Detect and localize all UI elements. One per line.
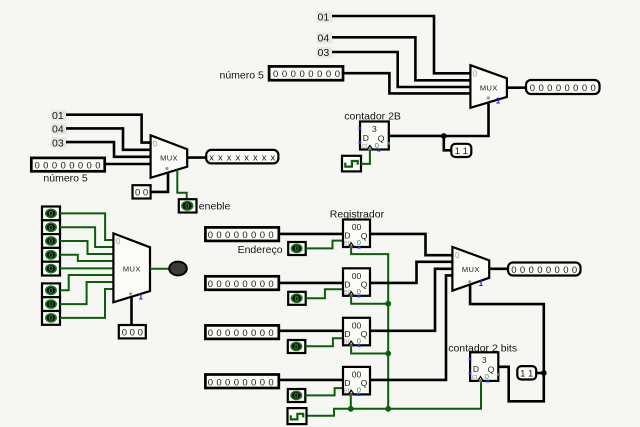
op: multiplexer U1 (top-right MUX) [470, 65, 507, 108]
wire IN4 to R4 D [279, 379, 343, 382]
junction clock/reg3 [385, 351, 391, 357]
svg-text:MUX: MUX [160, 153, 178, 162]
junction select/probe P4 [541, 370, 547, 376]
junction clock main [385, 406, 391, 412]
svg-text:0: 0 [485, 372, 489, 381]
wire junction to P4 [536, 372, 544, 375]
svg-text:04: 04 [318, 33, 330, 45]
wire U3 output (green) [150, 268, 169, 270]
probe P4 "1 1" [517, 366, 536, 379]
svg-text:0: 0 [455, 251, 460, 260]
svg-text:0: 0 [49, 266, 53, 273]
wire 01 to U1 input 0 [332, 16, 470, 73]
svg-text:0 0 0 0 0 0 0 0: 0 0 0 0 0 0 0 0 [208, 377, 274, 388]
clock net reg4 [350, 394, 352, 408]
svg-text:01: 01 [318, 12, 330, 24]
junction clock/reg2 [385, 301, 391, 307]
svg-text:0: 0 [357, 386, 361, 395]
wire U1 select [444, 102, 489, 136]
svg-text:03: 03 [318, 47, 330, 59]
button eneble [179, 199, 231, 213]
svg-text:0: 0 [49, 316, 53, 323]
wire IN2 to R2 D [279, 282, 343, 285]
svg-text:0: 0 [294, 393, 298, 400]
wire R4 Q to U4 in3 [370, 275, 452, 380]
output display O1 (8-bit, top-right) [526, 80, 600, 94]
wire IN1 to R1 D [279, 233, 343, 236]
wire U2 select to probe P2 [151, 172, 168, 192]
button en2 [288, 292, 306, 305]
wire en4 to R4 enable [305, 388, 343, 395]
svg-text:D: D [344, 231, 350, 241]
svg-text:Endereço: Endereço [238, 244, 283, 256]
svg-text:número 5: número 5 [43, 172, 88, 184]
op: multiplexer U4 (bottom-right) [452, 247, 489, 291]
clock net (green) reg1 [351, 247, 388, 409]
svg-text:1: 1 [496, 97, 501, 106]
svg-text:0: 0 [49, 211, 53, 218]
wire junction to probe P1 [444, 136, 452, 150]
input pin IN2 (8-bit) [205, 276, 278, 290]
svg-text:0: 0 [294, 344, 298, 351]
wire U4 select to counter C2 Q [470, 285, 544, 402]
input pin IN3 (8-bit) [205, 325, 278, 339]
wire R3 Q to U4 in2 [370, 269, 452, 331]
svg-text:0: 0 [116, 237, 121, 246]
svg-text:Q: Q [361, 231, 368, 241]
wire U4 output [489, 267, 508, 270]
counter C2 contador 2 bits [448, 343, 517, 383]
svg-text:0: 0 [185, 203, 189, 210]
svg-text:Q: Q [361, 280, 368, 290]
wire R1 Q to U4 in0 [370, 234, 452, 255]
svg-text:0: 0 [295, 246, 299, 253]
svg-text:eneble: eneble [199, 201, 231, 213]
svg-text:0: 0 [357, 337, 361, 346]
svg-text:0: 0 [357, 287, 361, 296]
svg-text:3: 3 [372, 124, 377, 134]
svg-text:0: 0 [295, 296, 299, 303]
svg-text:0: 0 [357, 238, 361, 247]
svg-text:0 0: 0 0 [135, 188, 148, 199]
svg-text:D: D [344, 279, 350, 289]
svg-text:ct: ct [472, 374, 478, 381]
svg-text:0: 0 [49, 225, 53, 232]
clock CLK2 wire to counter C2 [307, 382, 482, 416]
svg-text:1 1: 1 1 [455, 146, 468, 157]
wire button8 to U3 in7 [60, 289, 113, 318]
svg-text:D: D [344, 378, 350, 388]
wire 01 to U2 input 0 [66, 115, 151, 143]
svg-text:0: 0 [153, 140, 158, 149]
wire en1 to R1 enable [306, 241, 343, 249]
svg-text:Q: Q [361, 329, 368, 339]
wire U1 output [507, 86, 526, 89]
register R4 [343, 367, 370, 396]
junction clock/reg4 [348, 406, 354, 412]
wire button5 to U3 in4 [60, 267, 113, 269]
button en4 [288, 389, 306, 402]
wire 03 to U1 input 2 [332, 52, 470, 87]
clock net reg3 [351, 345, 388, 353]
svg-text:0 0 0 0 0 0 0 0: 0 0 0 0 0 0 0 0 [511, 265, 577, 276]
wire button6 to U3 in5 [60, 275, 113, 290]
svg-text:03: 03 [52, 137, 64, 149]
svg-text:0 0 0 0 0 0 0 0: 0 0 0 0 0 0 0 0 [208, 279, 274, 290]
svg-text:04: 04 [52, 124, 64, 136]
wire button7 to U3 in6 [60, 282, 113, 304]
wire 03 to U2 input 2 [66, 142, 151, 157]
input pin número 5 (top-right) [220, 66, 344, 81]
wire button3 to U3 in2 [60, 241, 113, 254]
svg-text:D: D [473, 364, 479, 374]
wire button4 to U3 in3 [60, 255, 113, 261]
op: multiplexer U3 (8:1, bottom-left) [113, 233, 150, 302]
button en3 [288, 340, 306, 353]
svg-text:0: 0 [375, 141, 379, 150]
input pin IN1 (8-bit) [205, 227, 278, 241]
svg-text:0: 0 [49, 252, 53, 259]
wire button2 to U3 in1 [60, 227, 113, 247]
node 01 (left) [51, 110, 67, 122]
output display O2 (x x x x) [206, 150, 278, 164]
svg-text:0 0 0: 0 0 0 [122, 327, 143, 338]
register R1 [343, 220, 370, 249]
wire 04 to U2 input 1 [66, 128, 151, 149]
svg-text:01: 01 [52, 110, 64, 122]
clock CLK1 (top-right) [342, 156, 361, 172]
svg-text:0: 0 [49, 302, 53, 309]
node 04 (top-right) [317, 33, 333, 45]
wire IN3 to R3 D [279, 329, 343, 332]
svg-text:3: 3 [482, 355, 487, 365]
svg-text:número 5: número 5 [220, 69, 265, 81]
output LED (black ellipse) [169, 262, 187, 276]
node 03 (top-right) [317, 47, 333, 59]
svg-text:D: D [344, 329, 350, 339]
svg-text:0 0 0 0 0 0 0 0: 0 0 0 0 0 0 0 0 [208, 328, 274, 339]
wire U3 select [130, 297, 133, 325]
svg-text:0 0 0 0 0 0 0 0: 0 0 0 0 0 0 0 0 [273, 69, 340, 80]
svg-text:1: 1 [479, 279, 484, 288]
svg-text:0: 0 [473, 70, 478, 79]
svg-text:MUX: MUX [123, 264, 141, 273]
svg-text:0 0 0 0 0 0 0 0: 0 0 0 0 0 0 0 0 [35, 161, 101, 172]
svg-text:1: 1 [139, 293, 144, 302]
output display O3 (8-bit, bottom-right) [508, 263, 581, 276]
node 03 (left) [51, 137, 67, 149]
counter C1 contador 2B [344, 111, 401, 152]
button bank B (3 buttons) [42, 283, 60, 324]
register R2 [343, 268, 370, 297]
wire número5 to U2 input 3 [105, 163, 151, 166]
svg-text:x x x x x x x x: x x x x x x x x [209, 152, 275, 163]
input pin IN4 (8-bit) [205, 375, 278, 389]
wire R2 Q to U4 in1 [370, 262, 452, 283]
svg-text:D: D [363, 133, 369, 143]
wire U2 enable (green) [177, 170, 186, 199]
button Endereço (en1) [238, 242, 306, 256]
node 04 (left) [51, 123, 67, 135]
svg-text:0 0 0 0 0 0 0 0: 0 0 0 0 0 0 0 0 [530, 83, 596, 94]
wire CLK1 to C1 clock [361, 150, 370, 164]
svg-text:MUX: MUX [462, 265, 480, 274]
probe P1 "1 1" [451, 144, 471, 157]
clock CLK2 [288, 408, 307, 424]
svg-text:ct: ct [362, 143, 368, 150]
svg-text:1 1: 1 1 [520, 368, 533, 379]
wire en2 to R2 enable [306, 289, 343, 298]
wire U2 output [187, 156, 206, 159]
wire C1 Q output [389, 135, 444, 138]
svg-text:Q: Q [361, 378, 368, 388]
svg-text:MUX: MUX [480, 83, 498, 92]
probe P3 "0 0 0" [119, 325, 146, 338]
wire en3 to R3 enable [305, 338, 343, 346]
wire 04 to U1 input 1 [332, 37, 470, 80]
wire button1 to U3 in0 [60, 213, 113, 240]
input pin número 5 (left) [31, 158, 104, 184]
junction (select / counter Q) [441, 133, 447, 139]
op: multiplexer U2 (left MUX) [151, 135, 188, 178]
svg-text:0 0 0 0 0 0 0 0: 0 0 0 0 0 0 0 0 [208, 230, 274, 241]
svg-text:0: 0 [49, 239, 53, 246]
node 01 (top-right) [317, 12, 333, 24]
wire número5 to U1 input 3 [343, 73, 470, 93]
svg-text:0: 0 [49, 288, 53, 295]
clock net reg2 [351, 296, 388, 304]
probe P2 "0 0" [133, 185, 151, 198]
register R3 [343, 318, 370, 347]
button bank A (5 buttons) [42, 207, 60, 276]
